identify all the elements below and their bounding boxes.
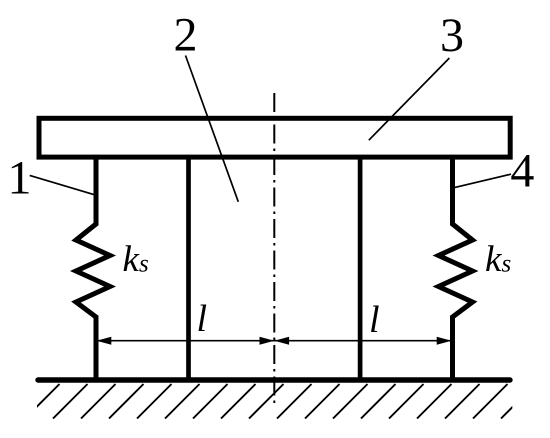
svg-text:3: 3	[440, 9, 464, 62]
svg-text:1: 1	[8, 152, 32, 205]
svg-text:l: l	[197, 298, 208, 340]
svg-text:2: 2	[174, 9, 198, 62]
svg-text:4: 4	[510, 145, 534, 198]
svg-text:l: l	[369, 299, 380, 341]
